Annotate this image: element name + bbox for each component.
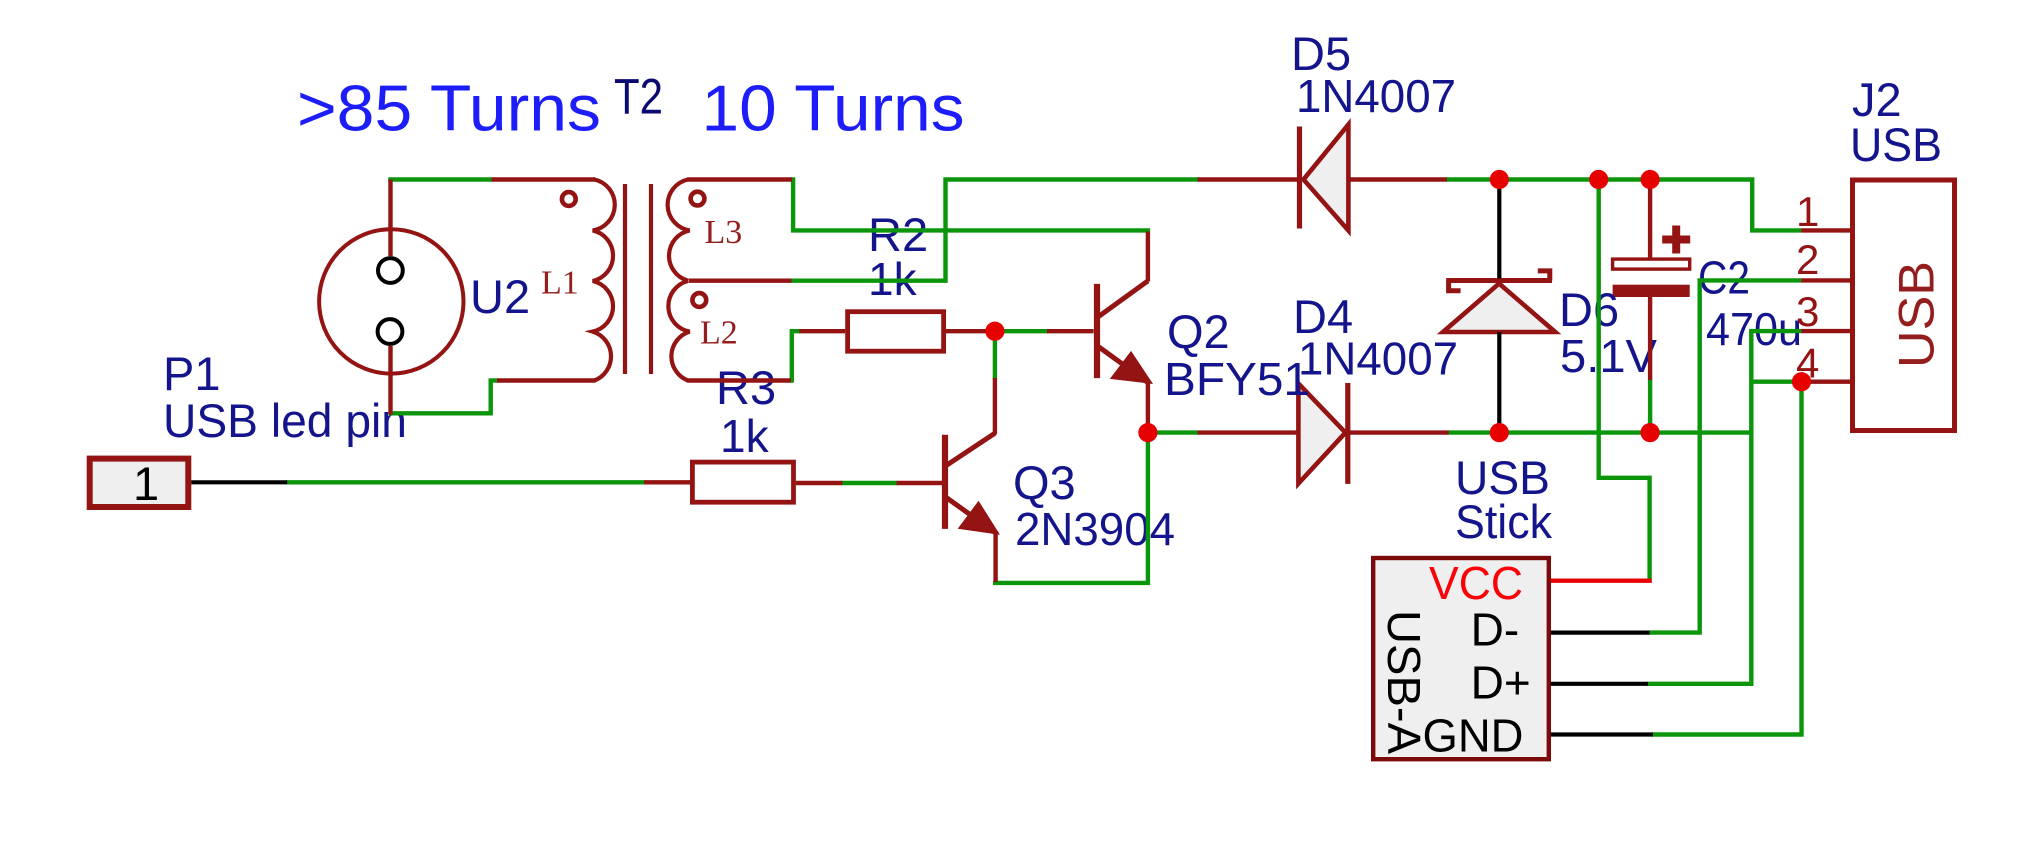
svg-text:2: 2 [1796, 236, 1819, 283]
wire D5 left stub [1198, 177, 1300, 181]
wire stick GND to J2 pin4 dot [1652, 384, 1802, 735]
wire stick D- black part [1551, 630, 1650, 634]
diode D5 [1300, 125, 1349, 231]
junction dot Q2 emitter node [1138, 423, 1157, 442]
svg-text:VCC: VCC [1429, 557, 1523, 609]
wire stick D+ black part [1551, 682, 1648, 686]
wire D4 cathode to pin3 vertical [1448, 430, 1754, 434]
polarity dot L3 [691, 192, 705, 206]
wire top-left U2 to L1 top (green part) [388, 177, 492, 181]
junction dot R2/Q2 base/Q3 collector [985, 322, 1004, 341]
wire top L1 pin maroon [492, 177, 596, 181]
wire stick D- to J2 pin2 [1649, 280, 1802, 632]
capacitor C2 bottom plate [1613, 285, 1690, 297]
wire Q2 emitter junction to D4 (green part) [1149, 430, 1199, 434]
wire C2 top lead [1648, 181, 1652, 259]
zener diode D6 [1443, 271, 1555, 332]
wire J2 pin4 stub [1803, 380, 1852, 384]
wire L2 bottom corner up to R2 row [790, 331, 800, 380]
svg-text:USB: USB [1889, 261, 1945, 368]
capacitor C2 top plate [1613, 259, 1690, 269]
connector U2 (plug circle) [319, 229, 463, 373]
wire Q3 base stub [897, 481, 945, 485]
wire L3 top pin [687, 177, 792, 181]
wire R2 left stub [799, 329, 845, 333]
svg-text:D+: D+ [1471, 657, 1531, 709]
transistor Q2 [1097, 281, 1150, 384]
wire L1 bottom pin maroon [497, 378, 596, 382]
svg-text:T2: T2 [614, 69, 663, 125]
wire Q3 emitter loop [995, 434, 1148, 583]
resistor R2 [848, 312, 944, 352]
wire D6 anode to GND row (black) [1497, 332, 1501, 431]
svg-text:2N3904: 2N3904 [1015, 503, 1175, 555]
svg-text:C2: C2 [1698, 252, 1750, 304]
junction dot J2 pin4 [1792, 372, 1811, 391]
svg-text:USB-A: USB-A [1378, 610, 1430, 754]
svg-text:1: 1 [1796, 188, 1819, 235]
Q3 emitter arrow [960, 503, 999, 534]
connector J2 box [1853, 180, 1955, 431]
svg-text:>85 Turns: >85 Turns [297, 72, 601, 145]
diode D4 [1298, 383, 1347, 484]
wire R3 right to Q3 base (green part) [841, 481, 897, 485]
wire Q2 emitter lead [1146, 382, 1150, 431]
USB stick box [1373, 558, 1549, 759]
wire Q3 collector lead [993, 378, 997, 434]
transformer winding L3 [668, 180, 690, 281]
wire U2 top pin [388, 180, 392, 257]
svg-text:5.1V: 5.1V [1560, 330, 1657, 382]
wire L1 bottom green stub [489, 378, 499, 382]
wire center tap pin [689, 279, 792, 283]
connector P1 pin box [90, 459, 189, 507]
svg-text:USB led pin: USB led pin [163, 394, 407, 447]
svg-text:L1: L1 [541, 265, 579, 302]
wire L2 bottom pin [687, 378, 791, 382]
wire D4 left stub [1198, 430, 1299, 434]
wire P1 pin1 black part [191, 480, 287, 484]
wire D5 right stub [1348, 177, 1447, 181]
wire center-tap to D5 row [790, 180, 1198, 281]
svg-text:1k: 1k [720, 410, 770, 462]
svg-text:USB: USB [1850, 118, 1942, 171]
wire R3 left stub [644, 480, 690, 484]
junction dot D4 row C2 [1641, 423, 1660, 442]
wire D6 node vertical / VCC jog [1599, 181, 1650, 579]
svg-text:Q3: Q3 [1013, 456, 1076, 509]
svg-text:L2: L2 [700, 315, 738, 352]
U2 pin hole bottom [378, 319, 403, 344]
svg-text:Q2: Q2 [1167, 305, 1230, 358]
wire stick D+ to J2 pin3 [1647, 331, 1801, 684]
wire D5 cathode-side to J2 pin1 corner [1446, 180, 1802, 231]
polarity dot L2 [692, 293, 706, 307]
wire U2 bottom pin [388, 346, 392, 415]
svg-text:P1: P1 [163, 347, 221, 400]
wire Q2 collector lead [1146, 232, 1150, 282]
junction dot top row D6 [1490, 170, 1509, 189]
svg-text:Stick: Stick [1455, 495, 1552, 548]
wire top row to D6 cathode (black) [1497, 181, 1501, 279]
transformer T2 winding L1 [593, 180, 615, 381]
transistor Q3 [945, 433, 997, 534]
wire junction down to Q3 collector (green part) [993, 333, 997, 380]
svg-text:10 Turns: 10 Turns [702, 72, 965, 145]
wire U2 bottom jog green [389, 379, 491, 414]
svg-text:D-: D- [1471, 604, 1520, 656]
wire Q3 emitter lead [993, 532, 997, 582]
wire VCC red [1551, 579, 1652, 583]
svg-text:R3: R3 [716, 361, 776, 414]
svg-text:1: 1 [133, 457, 159, 510]
junction dot top row VCC branch [1589, 170, 1608, 189]
wire J2 pin3 stub [1801, 329, 1851, 333]
wire D4 right stub [1347, 430, 1449, 434]
wire C2 bottom lead green part [1648, 379, 1652, 431]
wire stick GND black part [1551, 732, 1653, 736]
transformer core lines [623, 184, 627, 374]
wire L3 top corner down to row2 [791, 180, 1148, 233]
junction dot top row C2 [1641, 170, 1660, 189]
wire C2 bottom lead maroon [1648, 297, 1652, 380]
wire J2 pin1 stub [1801, 228, 1851, 232]
wire R2 right stub to junction [946, 329, 997, 333]
transformer winding L2 [668, 281, 689, 381]
svg-text:U2: U2 [470, 270, 530, 323]
svg-text:L3: L3 [705, 214, 743, 251]
junction dot D4 row D6 [1490, 423, 1509, 442]
svg-text:1N4007: 1N4007 [1298, 333, 1458, 385]
U2 pin hole top [378, 258, 403, 283]
wire R2 right to Q2 base (green part) [996, 329, 1048, 333]
Q2 emitter arrow [1112, 353, 1151, 383]
wire P1 pin to R3 (green part) [286, 480, 645, 484]
svg-text:D6: D6 [1559, 283, 1619, 336]
wire J2 pin4 row [1753, 380, 1799, 384]
capacitor C2 plus sign [1662, 226, 1690, 254]
wire R3 right stub [796, 481, 842, 485]
wire J2 pin2 stub [1801, 278, 1851, 282]
svg-text:1N4007: 1N4007 [1296, 70, 1456, 122]
polarity dot L1 [562, 192, 576, 206]
resistor R3 [692, 462, 793, 502]
wire Q2 base stub [1047, 329, 1094, 333]
svg-text:BFY51: BFY51 [1164, 353, 1310, 405]
svg-text:3: 3 [1796, 288, 1819, 335]
svg-text:GND: GND [1423, 710, 1524, 762]
